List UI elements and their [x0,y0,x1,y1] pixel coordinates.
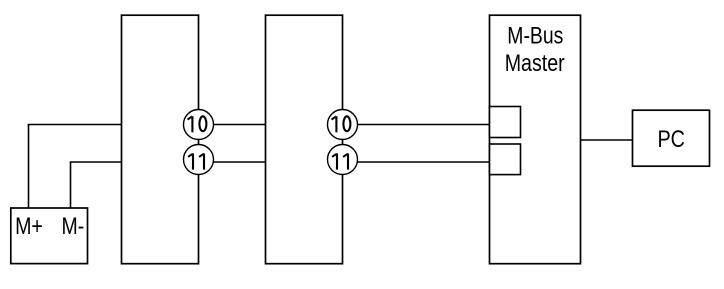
terminal circle 11 of slave 2 [328,145,358,175]
wire terminal 10 of slave 1 to slave 2 [214,124,266,126]
svg-text:M-Bus: M-Bus [507,23,563,50]
meter box M [11,208,88,264]
master terminal square lower [490,144,521,175]
pin label 11 (slave 2) [332,154,348,170]
wire terminal 11 of slave 2 to master [358,161,490,163]
wire M+ vertical [28,125,30,209]
wire M- horizontal to slave 1 [70,161,122,163]
slave device 2 box [266,15,343,264]
svg-text:M+: M+ [15,213,43,240]
wire M- vertical [70,162,72,209]
master terminal square upper [490,107,521,138]
terminal circle 10 of slave 2 [328,110,358,140]
pin label 10 (slave 2) [332,116,351,132]
terminal circle 10 of slave 1 [184,110,214,140]
svg-text:M-: M- [62,213,85,240]
pin label 11 (slave 1) [188,154,204,170]
M-Bus Master box [490,15,581,264]
wire M+ horizontal to slave 1 [28,124,122,126]
svg-text:PC: PC [657,126,685,153]
terminal circle 11 of slave 1 [184,145,214,175]
svg-text:Master: Master [505,50,565,77]
slave device 1 box [122,15,199,264]
PC box [633,110,710,166]
pin label 10 (slave 1) [188,116,207,132]
wire terminal 11 of slave 1 to slave 2 [214,161,266,163]
wire terminal 10 of slave 2 to master [358,124,490,126]
wire master to PC [581,139,633,141]
